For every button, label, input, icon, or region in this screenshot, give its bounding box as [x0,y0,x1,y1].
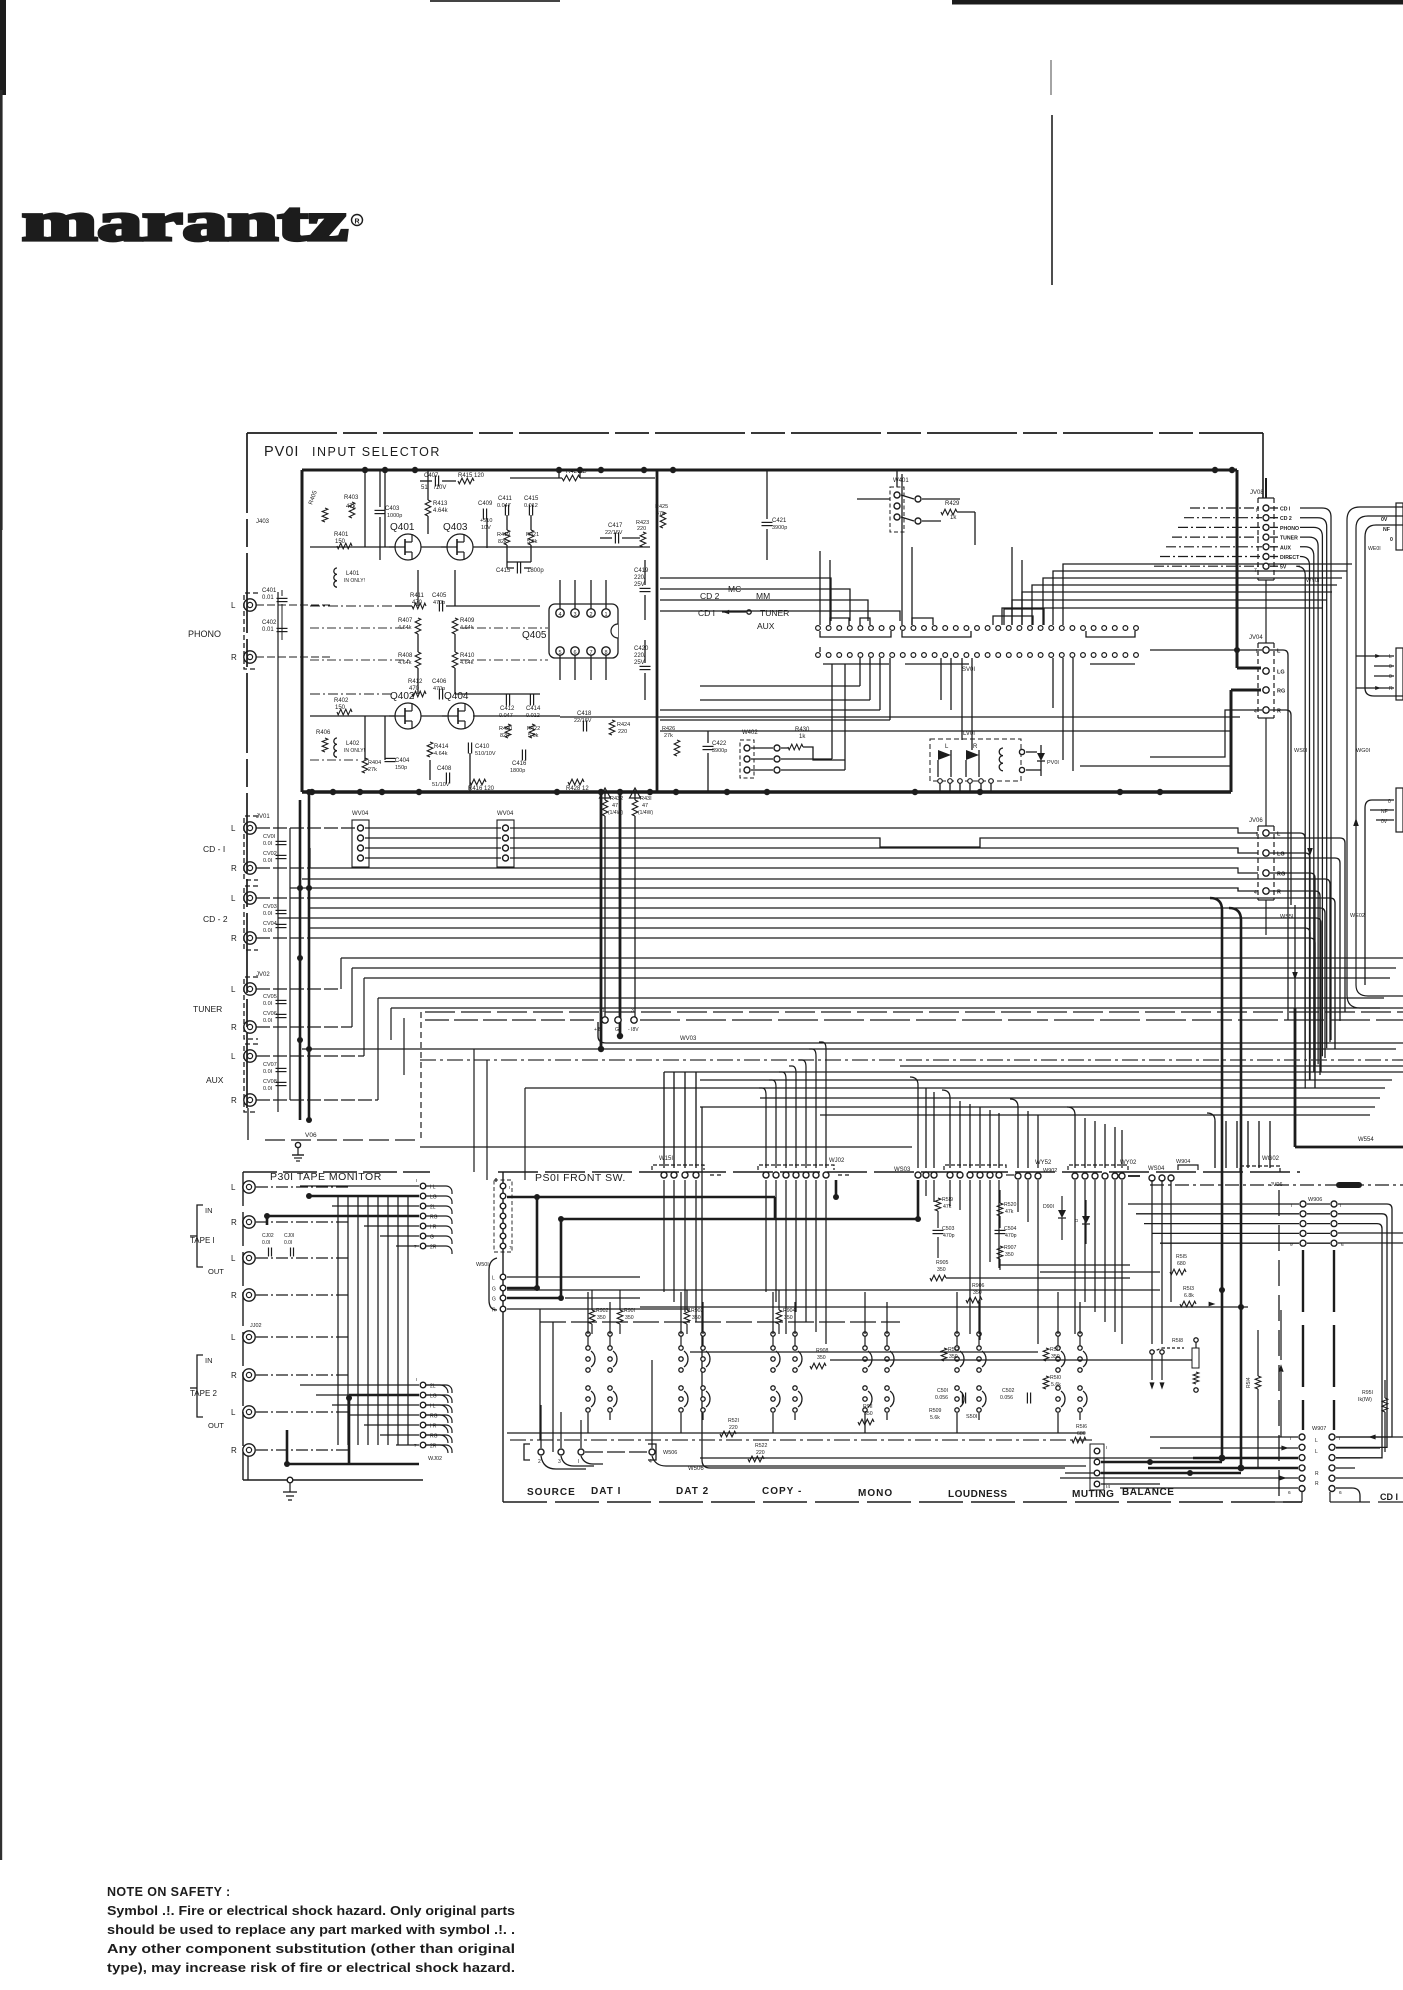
W907 left feeds [1150,1436,1298,1438]
resistor R510 5.6k [1043,1376,1049,1389]
svg-text:BALANCE: BALANCE [1122,1487,1174,1498]
wire gate row Q402 Q404 [310,715,395,717]
capacitor C418 22/16V [582,721,584,732]
svg-text:WE0I: WE0I [1368,546,1381,552]
svg-text:5.6k: 5.6k [1051,1382,1061,1388]
wire long row 958 [341,957,1403,959]
pin box right top [1396,503,1403,550]
svg-text:1: 1 [604,612,607,618]
svg-text:350: 350 [1005,1252,1014,1258]
svg-text:0.0I: 0.0I [263,1086,273,1092]
svg-text:G: G [615,1027,619,1033]
svg-text:C417: C417 [608,523,623,529]
wires JV04 to right [1270,650,1288,1020]
row 1322 [540,1321,900,1323]
svg-text:R904: R904 [783,1308,796,1314]
thick divider mid [656,470,659,792]
resistor R425 47k [660,512,666,528]
svg-text:SOURCE: SOURCE [527,1487,576,1498]
svg-text:C503: C503 [942,1226,955,1232]
resistor R512 350 [941,1348,947,1361]
svg-text:W50I: W50I [476,1262,489,1268]
inner amplifier box left bus [301,470,304,792]
P301 connector pins lower [420,1382,426,1388]
capacitor C503 470p [933,1229,944,1231]
row 1277 [507,1276,640,1278]
row 1473 continuation [1065,1472,1190,1474]
wire jack stubs [256,988,341,990]
svg-text:C419: C419 [634,568,649,574]
svg-text:C502: C502 [1002,1388,1015,1394]
thick bus A right [1210,898,1222,1458]
svg-text:/10V: /10V [434,485,446,491]
ground symbol V06 [295,1142,300,1147]
svg-text:R: R [1315,1481,1319,1487]
capacitor CV06 0.01 [276,1013,287,1015]
svg-text:510/10V: 510/10V [475,751,496,757]
svg-text:SV0I: SV0I [962,667,975,673]
wire row 879 [302,879,1330,1042]
resistor R415 120 [458,478,474,484]
svg-text:0.01: 0.01 [262,595,274,601]
svg-text:WG0I: WG0I [1356,748,1371,754]
resistor R408 4.64k [415,652,421,668]
svg-text:47: 47 [642,803,648,809]
resistor R419 82k [504,530,510,545]
svg-text:R428 12: R428 12 [566,786,589,792]
wire row cd2 mid [290,888,1258,891]
svg-text:J403: J403 [256,519,270,525]
wire long row 1008 [391,1007,1380,1009]
capacitor C419 220/25V [640,587,651,589]
svg-text:R52I: R52I [728,1418,739,1424]
svg-text:DAT I: DAT I [591,1486,621,1497]
bottom right corner verticals [1301,1492,1303,1502]
svg-text:L: L [1315,1438,1318,1444]
W906 W907 vertical bars [1302,1250,1304,1430]
svg-text:4.64k: 4.64k [460,660,474,666]
resistor R422 5.6k [529,724,535,738]
svg-text:I: I [509,1185,510,1190]
svg-text:WJ02: WJ02 [428,1456,442,1462]
thick bus B right [1229,908,1241,1468]
W506 fan curves [541,1456,586,1469]
svg-text:82k: 82k [500,733,509,739]
svg-text:V06: V06 [305,1132,317,1139]
pins WS03 [915,1172,921,1178]
svg-text:marantz: marantz [22,191,348,252]
svg-text:3900p: 3900p [712,748,727,754]
SV01 feed verticals [819,551,821,625]
tape1 jacks [243,1181,255,1193]
svg-text:R: R [231,1096,237,1105]
wire verticals in amp [364,470,366,547]
resistor R402 150 [337,709,352,715]
svg-text:R430: R430 [795,727,810,733]
svg-text:L: L [1315,1449,1318,1455]
svg-text:WY52: WY52 [1035,1160,1052,1166]
svg-text:Q402: Q402 [390,691,415,702]
capacitor CV07 0.01 [276,1067,287,1069]
svg-text:350: 350 [625,1315,634,1321]
right stair bundle verticals [917,1085,919,1168]
tape crossing verticals [337,1196,339,1445]
svg-text:CD I: CD I [698,608,715,618]
svg-text:D90I: D90I [1043,1204,1054,1210]
svg-text:82k: 82k [498,539,507,545]
labels right block mid pins [1396,648,1403,700]
row 1360 [830,1359,1192,1361]
svg-text:WS04: WS04 [1148,1166,1165,1172]
svg-text:350: 350 [1051,1354,1060,1360]
svg-text:L: L [231,1408,236,1417]
svg-text:TUNER: TUNER [193,1004,222,1014]
svg-text:G: G [492,1287,496,1293]
svg-text:INPUT SELECTOR: INPUT SELECTOR [312,445,441,459]
switch group COPY [771,1346,775,1350]
svg-text:2: 2 [589,612,592,618]
connector JV01 cd1 jacks [244,822,256,834]
wire row cd1R [256,867,310,869]
transistor Q404 [448,703,474,729]
resistor R414 4.64k [427,742,433,757]
svg-text:0.047: 0.047 [497,503,511,509]
svg-text:TUNER: TUNER [760,608,789,618]
dashed vertical divider right [1278,1190,1280,1498]
capacitor C415 0.012 [528,505,530,516]
svg-text:Symbol .!. Fire or electrica: Symbol .!. Fire or electrical shock haza… [107,1903,515,1918]
svg-text:C408: C408 [437,766,452,772]
svg-text:R425: R425 [655,504,668,510]
row 1290 long [507,1289,1160,1291]
inner amplifier box top bus [302,469,1237,472]
capacitor C409 +510 10V [482,509,484,520]
page fold mark [1051,115,1053,285]
resistor R901 350 [617,1310,623,1324]
svg-text:(1/4W): (1/4W) [638,810,653,816]
wire row cd1L [256,827,356,829]
capacitor C412 0.047 [505,695,507,706]
svg-text:10V: 10V [481,525,491,531]
svg-text:R95I: R95I [1362,1390,1373,1396]
transistor Q401 [395,534,421,560]
svg-text:R410: R410 [460,653,475,659]
capacitor C504 470p [995,1229,1006,1231]
wire rows in amp [310,605,395,607]
wire phono R [256,656,330,658]
svg-text:R43I: R43I [640,796,652,802]
svg-text:PV0I: PV0I [264,444,299,460]
svg-text:0V: 0V [1381,517,1388,523]
page top edge scan border [952,0,1403,5]
svg-text:350: 350 [597,1315,606,1321]
svg-text:Q405: Q405 [522,630,547,641]
svg-text:R509: R509 [929,1408,942,1414]
svg-text:I: I [1106,1445,1107,1451]
capacitor C403 [375,509,386,511]
svg-text:L: L [1389,654,1392,660]
right fan from SV01 to control bus [1002,608,1322,625]
svg-text:W906: W906 [1308,1197,1322,1203]
block PV01 outer border left [246,433,248,1108]
svg-text:+510: +510 [480,518,492,524]
svg-text:PV0I: PV0I [1047,760,1059,766]
svg-text:should be used to replace any: should be used to replace any part marke… [107,1922,515,1937]
svg-text:WE02: WE02 [1350,913,1365,919]
transistor Q402 [395,703,421,729]
svg-text:PHONO: PHONO [1280,526,1299,532]
svg-text:JV04: JV04 [1249,635,1263,641]
PS01 input pins [495,1178,497,1182]
svg-text:3900p: 3900p [772,525,787,531]
resistor R519 47k [935,1198,941,1211]
capacitor CV05 0.01 [276,999,287,1001]
resistor R406 [322,738,328,752]
svg-text:CD I: CD I [1280,507,1291,513]
tape ground [247,1456,249,1480]
capacitor C420 220/25V [640,665,651,667]
wire w401 feed [896,470,898,487]
svg-text:OUT: OUT [208,1421,224,1430]
svg-text:C403: C403 [385,506,400,512]
resistor R420 82k [505,724,511,738]
svg-text:C504: C504 [1004,1226,1017,1232]
svg-text:C421: C421 [772,518,787,524]
svg-text:W506: W506 [688,1466,704,1472]
bundle WY01 from JV08 down [1300,508,1331,1040]
svg-text:MONO: MONO [858,1488,893,1499]
svg-text:L: L [231,824,236,833]
svg-text:25V: 25V [634,660,645,666]
inductor L402 IN ONLY [334,738,337,757]
svg-text:470: 470 [412,600,423,606]
thick feed to JV04 LG [1237,667,1261,670]
wire long row 998 [378,997,1384,999]
svg-text:IN ONLY!: IN ONLY! [344,578,365,584]
svg-text:I: I [416,1178,417,1183]
switch group MUTING [1056,1346,1060,1350]
SV01 upper bridges [830,618,849,625]
svg-text:I: I [1256,508,1257,514]
wire phono L [256,604,330,606]
svg-text:150: 150 [335,539,346,545]
Q405 pins top [556,609,564,617]
svg-text:P30I TAPE MONITOR: P30I TAPE MONITOR [270,1171,382,1183]
thick riser to JV04 RG [1230,690,1233,792]
svg-text:R903: R903 [691,1308,704,1314]
transistor Q403 [447,534,473,560]
resistor R904 350 [776,1310,782,1324]
svg-text:R908: R908 [816,1348,829,1354]
svg-text:220: 220 [729,1425,738,1431]
svg-text:W402: W402 [742,730,758,736]
svg-text:0: 0 [1389,674,1392,680]
thick drop rails below bus [600,792,603,1049]
SV01 under brackets [820,631,891,637]
wire row 1115 [820,1114,1370,1116]
wire row 1012 dashed [425,1011,1403,1013]
svg-text:L: L [231,985,236,994]
marantz logo [22,191,363,252]
svg-text:G: G [492,1297,496,1303]
svg-text:R419: R419 [497,532,510,538]
svg-text:CV08: CV08 [263,1079,277,1085]
block PV01 INPUT SELECTOR outer border top [247,432,1263,434]
junction dots on bottom bus [309,789,315,795]
svg-text:WG02: WG02 [1262,1156,1280,1162]
svg-text:W401: W401 [893,478,909,484]
svg-text:NF: NF [1383,527,1390,533]
svg-text:LG: LG [1277,670,1285,676]
junction dots on top bus [362,467,368,473]
W151 bundle verticals [663,1072,665,1168]
labels right block lower pins [1396,788,1403,832]
svg-text:R: R [231,1446,237,1455]
svg-text:0.0I: 0.0I [263,841,273,847]
W906 left feeds [1128,1203,1299,1205]
svg-text:W15I: W15I [659,1156,673,1162]
svg-text:5V: 5V [1280,565,1287,571]
switch group MONO [863,1346,867,1350]
svg-text:CV06: CV06 [263,1011,277,1017]
wire row lg1 [365,837,501,839]
arrow up right lower [1278,1364,1283,1372]
block right inner bracket [1365,525,1403,696]
resistor R429 1k [941,509,957,515]
svg-text:CJ02: CJ02 [262,1233,274,1239]
svg-text:L: L [231,1183,236,1192]
legend MC MM selector [698,584,789,631]
block right outer bracket [1347,507,1403,1008]
thick tape net c [346,1395,352,1401]
svg-text:220: 220 [637,526,646,532]
capacitor CV08 0.01 [276,1081,287,1083]
svg-text:R420: R420 [499,726,512,732]
wire rows under JV04 [1080,765,1231,767]
svg-text:C409: C409 [478,501,493,507]
svg-text:L402: L402 [346,741,360,747]
resistor R403 47k [349,502,355,518]
svg-text:4: 4 [558,612,561,618]
svg-text:C414: C414 [526,706,541,712]
svg-text:27k: 27k [664,733,673,739]
svg-text:IN: IN [205,1206,213,1215]
wire gate row Q401 Q403 [310,546,395,548]
svg-text:R424: R424 [617,722,630,728]
svg-text:WV03: WV03 [680,1036,697,1042]
capacitor C415b 1800p [516,563,518,574]
capacitor CV04 0.01 [276,923,287,925]
svg-text:1k: 1k [950,515,957,521]
page left edge scan border [0,0,6,95]
wire chain row 1060 [420,1059,1403,1061]
svg-text:JV06: JV06 [1249,818,1263,824]
svg-text:CD - 2: CD - 2 [203,914,228,924]
tape2 jacks [243,1331,255,1343]
svg-text:C422: C422 [712,741,727,747]
resistor R431 47 1/4W [634,792,636,800]
switch group DAT2 [679,1346,683,1350]
SV01 lower descenders [859,658,861,686]
svg-text:R522: R522 [755,1443,768,1449]
svg-text:0.0I: 0.0I [263,1018,273,1024]
svg-text:470p: 470p [433,600,445,606]
svg-text:CV0I: CV0I [263,834,276,840]
wire row 1107 [700,1106,1375,1108]
svg-text:C407: C407 [424,473,439,479]
connector WV03 [425,1019,596,1021]
svg-text:Q403: Q403 [443,522,468,533]
wires pins down into clusters [663,1180,665,1292]
svg-text:R5I8: R5I8 [1172,1338,1183,1344]
svg-text:47k: 47k [656,511,665,517]
svg-text:- I8V: - I8V [628,1027,639,1033]
thick input select rail B [308,792,311,1120]
svg-text:3: 3 [558,1459,561,1465]
wire long row 731 [660,730,1230,732]
svg-text:R9II: R9II [863,1404,873,1410]
svg-text:R5I9: R5I9 [942,1197,953,1203]
resistor R424 220 [609,720,615,735]
resistor R412 470 capacitor C406 470p [412,691,426,697]
stair verticals to front sw [420,1012,422,1142]
capacitor C402 0.01 [277,627,288,629]
svg-text:(1/4W): (1/4W) [608,810,623,816]
svg-text:R416 120: R416 120 [468,786,495,792]
row 1298 stub [565,1297,640,1299]
connector W506 [524,1444,530,1460]
switch group DAT1 [586,1346,590,1350]
capacitor C407 51/10V [434,476,436,487]
svg-text:1800p: 1800p [527,568,544,574]
wire row 918 [278,918,1321,1072]
switch SV01 row upper [816,626,1139,631]
resistor R421 5.6k [528,530,534,545]
svg-text:220/: 220/ [634,653,646,659]
vertical feeds lower left [539,1309,541,1440]
capacitor C414 0.012 [529,695,531,706]
arrow WS51 down [1292,972,1298,980]
Q405 pins bottom [556,647,564,655]
capacitor CV03 0.01 [276,909,287,911]
svg-text:R: R [231,1371,237,1380]
svg-text:R: R [1389,686,1393,692]
svg-text:47k: 47k [1005,1209,1014,1215]
svg-text:W904: W904 [1176,1159,1190,1165]
capacitor CV02 0.01 [276,854,287,856]
svg-text:1: 1 [602,1008,605,1014]
tape row links [300,1185,419,1187]
svg-text:I: I [416,1377,417,1382]
svg-text:R: R [231,653,237,662]
svg-text:R5I7: R5I7 [1050,1347,1061,1353]
svg-text:C410: C410 [475,744,490,750]
thick front sw net2 [774,1197,777,1219]
svg-text:25V: 25V [634,582,645,588]
svg-text:R406: R406 [316,730,331,736]
vertical feed long [702,1107,1065,1468]
svg-text:WS5I: WS5I [1280,914,1294,920]
svg-text:LOUDNESS: LOUDNESS [948,1489,1008,1500]
svg-text:0.0I: 0.0I [263,1001,273,1007]
svg-text:6: 6 [1288,1490,1291,1496]
W907 right feeds [1336,1436,1403,1438]
LV01 bottom pins [938,779,943,784]
curve bracket W501 [489,1258,497,1310]
thick front sw net3 [833,1194,839,1200]
svg-text:IN ONLY!: IN ONLY! [344,748,365,754]
svg-text:L: L [231,1333,236,1342]
